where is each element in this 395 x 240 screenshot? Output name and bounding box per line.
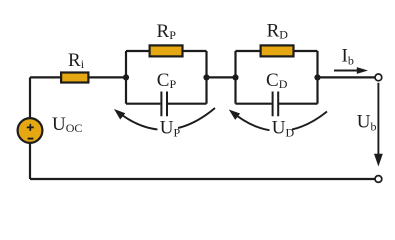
wire R_i to node A [88,76,126,78]
wire loop1 top rail [126,50,207,52]
wire left vertical below source [29,144,31,180]
resistor R_i [61,73,88,83]
wire top-left horizontal to R_i [30,76,62,78]
node D [314,74,320,80]
node C [232,74,238,80]
wire loop2 left vertical [234,51,236,104]
wire node D to top terminal [318,76,376,78]
voltage source U_OC [18,118,43,143]
svg-text:RD: RD [267,20,289,41]
svg-text:Ib: Ib [342,46,354,68]
svg-text:Ub: Ub [357,112,377,134]
capacitor C_D [273,92,279,117]
terminal bottom [375,176,382,183]
node A [123,74,129,80]
wire loop2 right vertical [316,51,318,104]
wire loop2 bottom rail [236,103,318,105]
capacitor C_P [161,92,167,117]
terminal top [375,74,382,81]
voltage arrow U_D [229,110,327,141]
wire loop1 bottom rail [126,103,207,105]
voltage arrow U_b [374,83,383,167]
node B [203,74,209,80]
wire loop2 top rail [236,50,318,52]
wire node B to node C [207,76,236,78]
svg-text:Ri: Ri [68,50,85,71]
svg-text:RP: RP [157,21,177,42]
wire loop1 right vertical [205,51,207,104]
resistor R_P [150,45,183,56]
svg-text:CP: CP [157,70,177,91]
wire left vertical above source [29,77,31,118]
wire bottom horizontal [30,178,375,180]
svg-text:UOC: UOC [52,114,82,135]
voltage arrow U_P [114,108,215,141]
svg-text:CD: CD [266,70,288,91]
wire loop1 left vertical [125,51,127,104]
resistor R_D [261,45,294,56]
current arrow I_b [334,67,368,74]
